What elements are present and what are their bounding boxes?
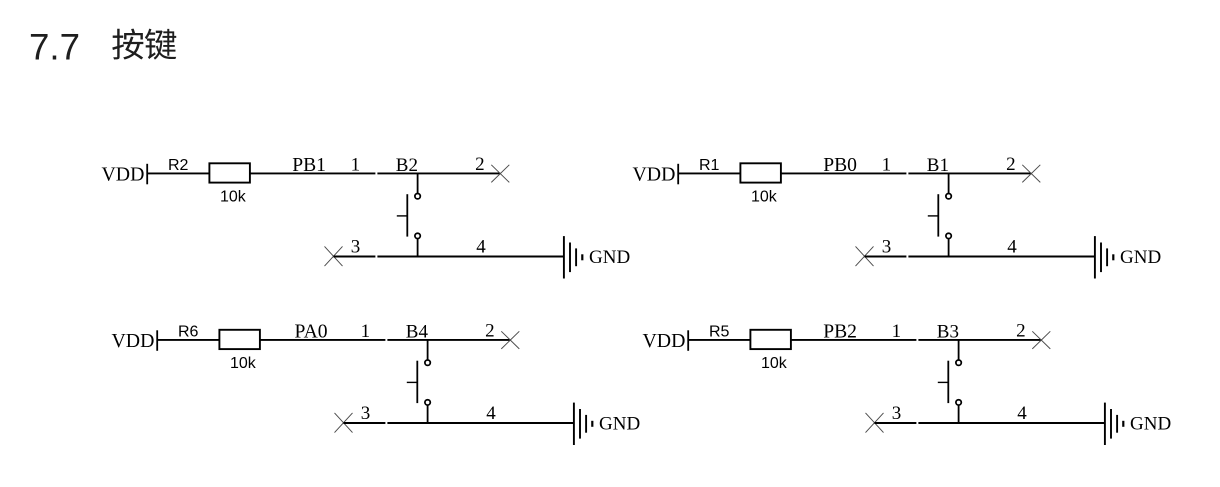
svg-text:R1: R1 — [699, 157, 720, 174]
svg-text:VDD: VDD — [643, 330, 686, 352]
wire B4 pin 4 to GND — [387, 422, 573, 424]
wire B4 pin 1 / pin 2 top rail — [387, 339, 510, 341]
no-connect mark on B3 pin 2 — [1032, 331, 1050, 349]
svg-text:3: 3 — [351, 236, 361, 257]
svg-text:PB2: PB2 — [823, 321, 857, 342]
svg-text:GND: GND — [1120, 247, 1161, 268]
svg-text:R6: R6 — [178, 324, 199, 341]
svg-text:R2: R2 — [168, 157, 189, 174]
no-connect mark on B4 pin 2 — [501, 331, 519, 349]
wire B3 pin 3 stub — [875, 422, 917, 424]
no-connect mark on B2 pin 3 — [325, 246, 343, 266]
svg-text:VDD: VDD — [112, 330, 155, 352]
resistor R6 body — [219, 330, 260, 349]
svg-text:VDD: VDD — [633, 163, 676, 185]
power flag VDD (circuit 2) — [633, 163, 679, 185]
svg-text:B3: B3 — [937, 322, 959, 343]
svg-text:2: 2 — [1006, 154, 1016, 175]
wire B2 pin 3 stub — [334, 256, 376, 258]
resistor R2 body — [209, 163, 250, 182]
wire VDD to R1 — [679, 172, 740, 174]
power flag VDD (circuit 1) — [102, 163, 148, 185]
svg-text:PB1: PB1 — [292, 155, 326, 176]
svg-text:1: 1 — [882, 154, 892, 175]
wire R1 to B1 pin 1 (net PB0) — [781, 172, 906, 174]
no-connect mark on B2 pin 2 — [491, 165, 509, 183]
wire B1 pin 4 to GND — [908, 256, 1094, 258]
no-connect mark on B4 pin 3 — [335, 413, 353, 433]
svg-text:1: 1 — [361, 321, 371, 342]
svg-text:10k: 10k — [230, 355, 257, 372]
push-button switch B4 symbol — [407, 339, 431, 424]
svg-text:PB0: PB0 — [823, 155, 857, 176]
wire B1 pin 3 stub — [865, 256, 907, 258]
svg-text:4: 4 — [486, 403, 496, 424]
svg-text:3: 3 — [361, 403, 371, 424]
wire R6 to B4 pin 1 (net PA0) — [260, 339, 385, 341]
section heading word 按 (drawn glyph) — [112, 29, 143, 60]
svg-text:4: 4 — [1017, 403, 1027, 424]
svg-text:4: 4 — [1007, 236, 1017, 257]
wire B1 pin 1 / pin 2 top rail — [908, 172, 1031, 174]
no-connect mark on B3 pin 3 — [866, 413, 884, 433]
wire B3 pin 1 / pin 2 top rail — [918, 339, 1041, 341]
svg-text:2: 2 — [1016, 320, 1026, 341]
wire VDD to R5 — [689, 339, 750, 341]
resistor R1 body — [740, 163, 781, 182]
push-button switch B2 symbol — [397, 173, 421, 258]
svg-text:3: 3 — [882, 236, 892, 257]
push-button switch B1 symbol — [928, 173, 952, 258]
svg-text:10k: 10k — [751, 189, 778, 206]
svg-text:B4: B4 — [406, 322, 429, 343]
svg-text:1: 1 — [351, 154, 361, 175]
wire R5 to B3 pin 1 (net PB2) — [791, 339, 916, 341]
wire VDD to R2 — [148, 172, 209, 174]
section heading word 键 (drawn glyph) — [145, 29, 176, 60]
svg-text:10k: 10k — [220, 189, 247, 206]
svg-text:GND: GND — [589, 247, 630, 268]
svg-text:10k: 10k — [761, 355, 788, 372]
wire B2 pin 1 / pin 2 top rail — [377, 172, 500, 174]
svg-text:2: 2 — [475, 154, 485, 175]
wire B3 pin 4 to GND — [918, 422, 1104, 424]
no-connect mark on B1 pin 3 — [856, 246, 874, 266]
svg-text:B1: B1 — [927, 155, 949, 176]
svg-text:VDD: VDD — [102, 163, 145, 185]
svg-text:R5: R5 — [709, 324, 730, 341]
power flag VDD (circuit 3) — [112, 330, 158, 352]
wire B4 pin 3 stub — [344, 422, 386, 424]
no-connect mark on B1 pin 2 — [1022, 165, 1040, 183]
svg-text:B2: B2 — [396, 155, 418, 176]
ground symbol GND (circuit 4) — [1105, 403, 1123, 445]
svg-text:1: 1 — [892, 321, 902, 342]
wire VDD to R6 — [158, 339, 219, 341]
svg-text:GND: GND — [1130, 414, 1171, 435]
svg-text:3: 3 — [892, 403, 902, 424]
resistor R5 body — [750, 330, 791, 349]
ground symbol GND (circuit 3) — [574, 403, 592, 445]
svg-text:PA0: PA0 — [295, 321, 328, 342]
push-button switch B3 symbol — [938, 339, 962, 424]
power flag VDD (circuit 4) — [643, 330, 689, 352]
svg-text:7.7: 7.7 — [29, 26, 80, 67]
svg-text:2: 2 — [485, 320, 495, 341]
ground symbol GND (circuit 2) — [1095, 236, 1113, 278]
svg-text:GND: GND — [599, 414, 640, 435]
wire B2 pin 4 to GND — [377, 256, 563, 258]
ground symbol GND (circuit 1) — [564, 236, 582, 278]
wire R2 to B2 pin 1 (net PB1) — [250, 172, 375, 174]
svg-text:4: 4 — [476, 236, 486, 257]
